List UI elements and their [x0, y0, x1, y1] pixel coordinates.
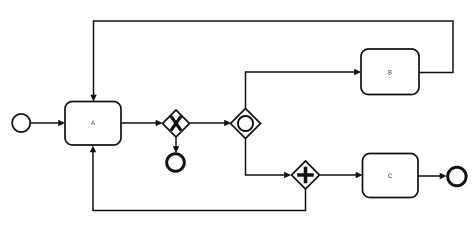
- svg-text:C: C: [388, 174, 393, 180]
- task A: [65, 102, 121, 146]
- end event E2: [448, 167, 466, 185]
- wire C to end event E2: [418, 173, 447, 179]
- exclusive gateway G1: [163, 110, 190, 137]
- inclusive gateway G2: [231, 109, 261, 139]
- svg-text:B: B: [388, 70, 392, 76]
- wire A to gateway G1: [122, 120, 163, 126]
- wire G3 to C: [320, 172, 363, 178]
- wire start to A: [31, 120, 65, 126]
- wire G2 to gateway G3: [246, 139, 292, 179]
- start event: [12, 114, 30, 132]
- wire G1 to gateway G2: [190, 120, 232, 126]
- svg-text:A: A: [91, 121, 95, 127]
- end event E1: [167, 154, 185, 172]
- wire G2 to B: [246, 69, 362, 109]
- task B: [361, 49, 419, 95]
- task C: [363, 154, 419, 198]
- wire G1 to end event E1: [173, 137, 179, 153]
- parallel gateway G3: [292, 161, 320, 189]
- wire G3 to A feedback: [90, 146, 306, 211]
- wire B to A feedback: [90, 21, 453, 102]
